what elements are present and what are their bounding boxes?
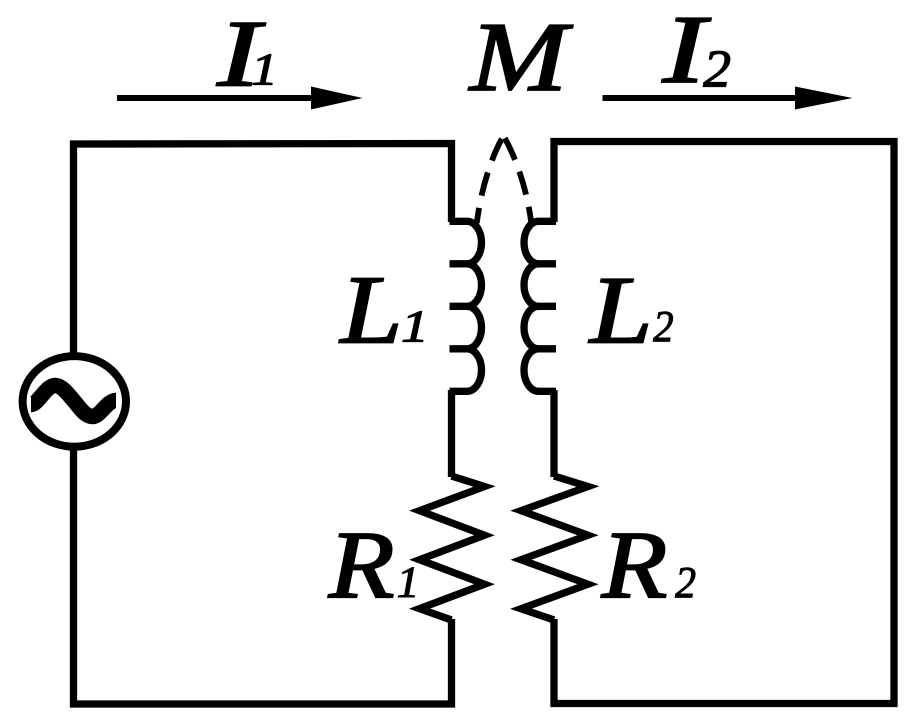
svg-text:2: 2 — [653, 303, 673, 352]
svg-text:2: 2 — [703, 40, 731, 99]
svg-text:1: 1 — [251, 44, 278, 94]
svg-text:R: R — [328, 512, 395, 618]
svg-text:1: 1 — [401, 301, 428, 351]
svg-text:M: M — [468, 4, 573, 112]
svg-text:L: L — [338, 256, 402, 364]
svg-text:2: 2 — [675, 559, 696, 607]
svg-text:L: L — [588, 257, 653, 364]
svg-text:1: 1 — [397, 557, 420, 606]
svg-text:R: R — [601, 512, 668, 618]
